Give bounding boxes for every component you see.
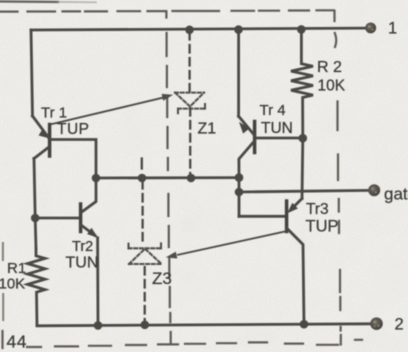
- wire Tr3 emitter up to R2 node: [301, 138, 305, 198]
- svg-text:1: 1: [388, 20, 397, 38]
- zener diode Z3: [129, 243, 162, 264]
- wire left rail upper: [31, 30, 33, 116]
- node R2 / Tr4 base / Tr3 emitter: [299, 134, 308, 143]
- wire top rail down to Tr4 emitter: [237, 30, 240, 117]
- node top rail / Tr4: [234, 25, 243, 34]
- svg-text:Tr3: Tr3: [306, 201, 329, 218]
- transistor Tr2 collector wire: [81, 178, 96, 213]
- node bottom rail / Z3: [141, 321, 150, 330]
- svg-text:TUN: TUN: [66, 255, 99, 272]
- dash-dot frame bottom border: [27, 340, 362, 347]
- node mid rail / Tr1 base: [92, 174, 101, 183]
- transistor Tr1 collector wire: [34, 147, 50, 159]
- svg-text:R1: R1: [7, 260, 26, 277]
- wire bottom rail: [37, 324, 370, 326]
- scan page edge mark top-left: [0, 0, 58, 3]
- dash-dot frame left border: [2, 243, 4, 320]
- node bottom rail / Tr3 collector: [300, 320, 309, 329]
- wire Tr3 base: [239, 215, 286, 218]
- wire Tr2 emitter down to bottom rail: [96, 238, 99, 326]
- node left rail / Tr2 base: [31, 214, 40, 223]
- zener Z3 dashed connection lower: [144, 267, 146, 321]
- zener Z3 dashed connection upper: [141, 181, 143, 246]
- svg-text:Tr 1: Tr 1: [41, 105, 67, 122]
- svg-text:TUN: TUN: [261, 120, 293, 137]
- zener Z1 dashed connection upper: [188, 32, 190, 91]
- terminal gate: [368, 184, 380, 196]
- resistor R1: [28, 249, 46, 326]
- svg-text:Z3: Z3: [152, 269, 172, 288]
- transistor Tr3 base bar: [285, 201, 289, 232]
- dash-dot frame top border: [0, 10, 334, 11]
- transistor Tr1 emitter arrow: [39, 129, 49, 138]
- transistor Tr3 emitter arrow: [287, 203, 298, 213]
- svg-text:TUP: TUP: [306, 218, 339, 236]
- node bottom rail / Tr2 emitter: [94, 321, 103, 330]
- svg-text:Tr 4: Tr 4: [260, 102, 286, 119]
- svg-text:2: 2: [395, 316, 404, 334]
- wire middle rail: [96, 176, 239, 179]
- dash-dot frame right border: [335, 11, 341, 345]
- node mid rail / Z3: [138, 174, 147, 183]
- arrow pointing to Z1: [52, 97, 164, 124]
- wire Tr4 base to R2: [256, 137, 303, 140]
- zener diode Z1: [175, 93, 205, 114]
- wire left rail lower: [34, 159, 36, 249]
- svg-text:10K: 10K: [0, 276, 25, 293]
- transistor Tr3 collector wire: [287, 228, 304, 324]
- svg-text:Z1: Z1: [198, 121, 217, 138]
- node mid rail / Tr4 collector: [235, 173, 244, 182]
- transistor Tr4 base bar: [253, 122, 257, 153]
- transistor Tr2 emitter arrow: [87, 228, 98, 238]
- wire Tr1 base to mid rail: [51, 140, 96, 178]
- wire top rail: [31, 28, 365, 30]
- transistor Tr3 emitter wire: [291, 199, 302, 210]
- wire mid junction down to gate node: [238, 178, 241, 217]
- svg-text:gate: gate: [384, 185, 408, 204]
- terminal 1: [365, 22, 376, 33]
- wire Tr2 base: [35, 217, 79, 220]
- transistor Tr2 emitter wire: [81, 225, 95, 236]
- node mid rail / Z1: [187, 174, 196, 183]
- zener Z1 dashed connection lower: [189, 108, 191, 176]
- transistor Tr4 emitter wire: [239, 116, 255, 135]
- svg-text:R 2: R 2: [317, 59, 342, 76]
- transistor Tr1 base bar: [48, 125, 52, 157]
- node top rail / R2: [297, 25, 306, 34]
- terminal speck details: [368, 26, 379, 327]
- transistor Tr4 collector wire: [239, 141, 255, 178]
- zener Z3 dashed connection stub above mid rail: [141, 159, 143, 169]
- terminal 2: [370, 317, 383, 330]
- arrow pointing to Z3: [178, 232, 285, 255]
- resistor R2: [291, 30, 313, 139]
- node top rail / Z1: [185, 26, 194, 35]
- svg-text:TUP: TUP: [57, 121, 90, 138]
- transistor Tr4 emitter arrow: [239, 122, 250, 134]
- node gate rail: [235, 188, 244, 197]
- inner dashed partition line: [166, 12, 170, 344]
- svg-text:Tr2: Tr2: [72, 239, 93, 255]
- transistor Tr1 emitter wire: [33, 116, 49, 138]
- svg-text:44: 44: [7, 332, 27, 352]
- transistor Tr2 base bar: [79, 204, 83, 232]
- svg-text:10K: 10K: [318, 78, 346, 95]
- wire gate rail: [239, 190, 368, 192]
